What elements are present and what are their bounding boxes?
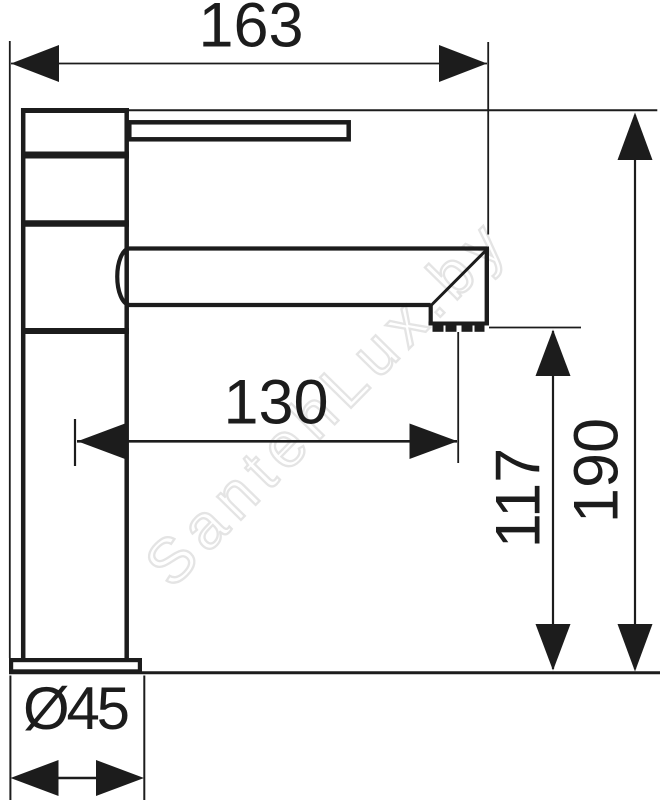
spout right edge <box>485 247 489 324</box>
aerator tooth 1 <box>433 326 444 332</box>
faucet body right edge <box>124 108 129 660</box>
body separator band 2 <box>21 152 129 159</box>
svg-text:163: 163 <box>198 0 303 61</box>
faucet body left edge <box>21 108 26 660</box>
aerator tooth 3 <box>462 326 473 332</box>
base flange <box>11 660 140 671</box>
ground line <box>9 671 660 674</box>
extension line right of 163 dimension <box>487 42 489 235</box>
body separator band 3 <box>21 220 129 227</box>
extension line left of diameter 45 <box>9 676 11 800</box>
arrowhead up 117 <box>536 330 571 377</box>
arrowhead left 130 <box>78 424 126 460</box>
extension line right of diameter 45 <box>143 676 145 800</box>
aerator tooth 4 <box>475 326 485 332</box>
extension line top for 190 dimension <box>129 109 657 111</box>
aerator bar <box>429 322 490 326</box>
arrowhead left 163 <box>11 45 59 82</box>
arrowhead right 45 <box>96 760 144 796</box>
extension line top for 117 dimension <box>489 327 581 329</box>
center axis tick for 130 <box>74 419 76 466</box>
handle lever <box>129 122 348 139</box>
dimension line 45 <box>58 777 97 780</box>
dimension line 190 <box>634 115 636 669</box>
svg-text:130: 130 <box>223 368 328 438</box>
arrowhead down 190 <box>618 624 653 672</box>
spout top edge <box>129 246 487 250</box>
arrowhead down 117 <box>536 624 571 671</box>
svg-text:117: 117 <box>484 448 554 548</box>
svg-text:190: 190 <box>562 418 632 523</box>
dimension line 163 <box>11 63 487 65</box>
spout end short vertical <box>429 305 433 324</box>
arrowhead right 163 <box>439 45 487 82</box>
faucet body top edge <box>21 108 129 113</box>
spout bottom edge <box>127 303 431 307</box>
spout left cap arc <box>117 249 129 305</box>
body separator band 4 <box>21 328 129 334</box>
dimension line 130 <box>77 440 457 443</box>
dimension line 117 <box>552 331 554 669</box>
extension line below aerator <box>457 332 459 463</box>
aerator tooth 2 <box>446 326 457 332</box>
arrowhead up 190 <box>618 113 653 161</box>
arrowhead right 130 <box>410 424 458 460</box>
svg-text:Ø45: Ø45 <box>23 675 130 742</box>
arrowhead left 45 <box>11 760 59 796</box>
spout diagonal cut <box>431 250 487 306</box>
extension line left of 163 dimension <box>9 41 11 658</box>
